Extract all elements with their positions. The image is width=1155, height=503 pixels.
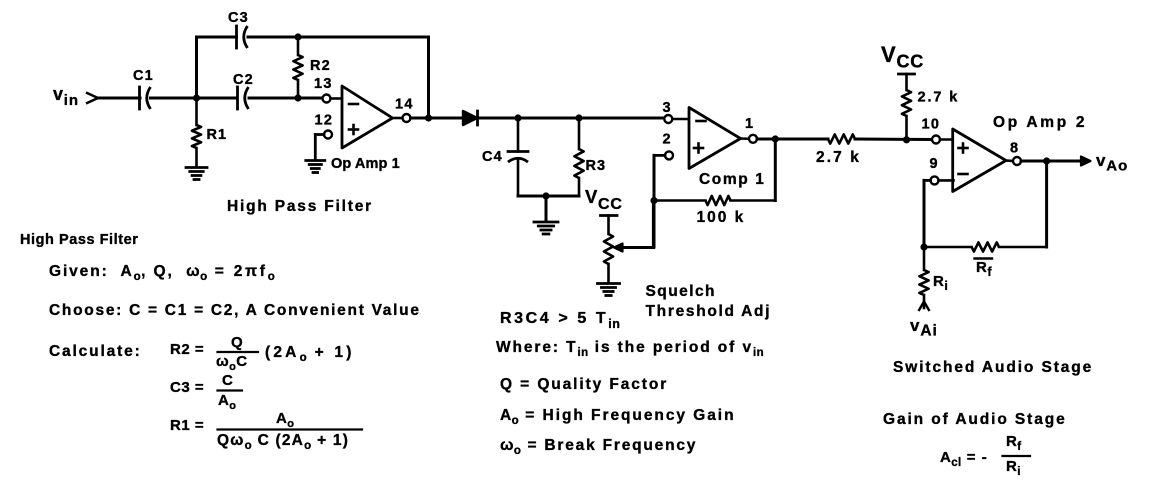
ground below R1 bbox=[186, 168, 207, 180]
label pin 8 bbox=[1010, 141, 1019, 157]
label Threshold Adj bbox=[646, 303, 772, 320]
Vcc terminal bar (right) bbox=[899, 73, 915, 76]
node B junction bbox=[294, 94, 301, 101]
svg-text:Q = Quality Factor: Q = Quality Factor bbox=[500, 376, 668, 393]
capacitor C3 bbox=[237, 26, 248, 48]
formula Acl bbox=[940, 433, 1030, 478]
label pin 14 bbox=[395, 97, 414, 113]
formula C3 equals bbox=[170, 372, 242, 412]
svg-text:8: 8 bbox=[1010, 141, 1019, 157]
wire pin9 to op-amp bbox=[939, 179, 954, 182]
svg-text:Calculate:: Calculate: bbox=[49, 343, 142, 360]
node pin10 junction bbox=[903, 136, 910, 143]
ground below pin 12 bbox=[306, 161, 325, 173]
diode CR1 bbox=[463, 111, 478, 125]
wire diode to comparator bbox=[478, 117, 665, 120]
label Squelch bbox=[646, 283, 716, 300]
svg-text:Threshold Adj: Threshold Adj bbox=[646, 303, 772, 320]
wire pin9 left bbox=[924, 179, 931, 182]
label pin 12 bbox=[315, 113, 334, 129]
svg-text:R1: R1 bbox=[207, 127, 228, 143]
wire pin9 down bbox=[923, 180, 926, 247]
wire feedback corner down to op-amp output bbox=[427, 37, 430, 118]
label vAi bbox=[910, 316, 938, 340]
pin 12 bbox=[324, 131, 332, 139]
Vcc terminal bar (squelch) bbox=[601, 214, 618, 217]
resistor 2.7k pullup bbox=[902, 74, 911, 140]
wire pin8 right bbox=[1021, 160, 1081, 163]
wire pin2 down bbox=[653, 155, 656, 247]
ground below C4/R3 bbox=[534, 222, 558, 234]
resistor R1 bbox=[192, 98, 201, 167]
svg-text:Comp 1: Comp 1 bbox=[699, 171, 765, 188]
node Ri junction bbox=[920, 243, 927, 250]
capacitor C4 bbox=[508, 152, 528, 163]
label R3 bbox=[586, 158, 607, 174]
wire C2 to node B bbox=[249, 97, 323, 100]
capacitor C2 bbox=[238, 87, 249, 109]
label pin 1 bbox=[745, 116, 754, 132]
svg-text:10: 10 bbox=[922, 117, 941, 133]
svg-text:13: 13 bbox=[314, 76, 333, 92]
wire pin12 down to ground bbox=[314, 135, 317, 160]
op-amp U3 plus bbox=[959, 144, 968, 153]
wire pin2 left bbox=[654, 154, 665, 157]
pin 8 bbox=[1013, 157, 1021, 165]
svg-text:12: 12 bbox=[315, 113, 334, 129]
wire C4 top bbox=[517, 118, 520, 152]
svg-text:Op Amp 2: Op Amp 2 bbox=[993, 114, 1087, 131]
label pin 9 bbox=[930, 156, 939, 172]
wire C1 to node A bbox=[151, 97, 238, 100]
vAo arrow bbox=[1081, 157, 1091, 166]
label Vcc (right) bbox=[881, 42, 924, 72]
wire node C to feedback corner bbox=[298, 36, 429, 39]
pin 9 bbox=[931, 176, 939, 184]
pin 2 bbox=[665, 151, 673, 159]
node feedback junction bbox=[650, 197, 657, 204]
vAi arrow bbox=[919, 302, 930, 312]
svg-text:R3: R3 bbox=[586, 158, 607, 174]
svg-text:14: 14 bbox=[395, 97, 414, 113]
label Switched Audio Stage bbox=[893, 359, 1093, 376]
svg-text:2.7 k: 2.7 k bbox=[816, 149, 861, 166]
op-amp U1 triangle bbox=[342, 86, 393, 148]
pin 1 bbox=[749, 135, 757, 143]
ground below potentiometer bbox=[598, 284, 620, 296]
svg-text:High Pass Filter: High Pass Filter bbox=[227, 198, 373, 215]
label R1 bbox=[207, 127, 228, 143]
svg-text:3: 3 bbox=[663, 100, 672, 116]
text Choose line bbox=[49, 302, 421, 319]
wire op-amp output to pin8 bbox=[1006, 159, 1013, 162]
label Comp 1 bbox=[699, 171, 765, 188]
wire C4-R3 bottom bbox=[518, 195, 579, 198]
text Given line bbox=[49, 263, 275, 283]
svg-text:1: 1 bbox=[745, 116, 754, 132]
svg-text:R2: R2 bbox=[310, 58, 331, 74]
comparator U2 minus bbox=[697, 120, 706, 123]
svg-text:R1 =: R1 = bbox=[170, 417, 204, 434]
wire Rf up to output bbox=[1045, 161, 1048, 247]
text Ao definition bbox=[500, 407, 735, 427]
wire op-amp output bbox=[393, 117, 403, 120]
label Op Amp 1 bbox=[331, 156, 400, 172]
label C2 bbox=[233, 72, 254, 88]
text R3C4 condition bbox=[500, 310, 620, 331]
wire vin to C1 bbox=[97, 97, 140, 100]
svg-text:Choose: C = C1 = C2, A Conveni: Choose: C = C1 = C2, A Convenient Value bbox=[49, 302, 421, 319]
svg-text:Gain of Audio Stage: Gain of Audio Stage bbox=[883, 411, 1067, 428]
text Q definition bbox=[500, 376, 668, 393]
label C4 bbox=[482, 149, 503, 165]
wire node A up to C3 rail bbox=[195, 37, 198, 98]
label Op Amp 2 bbox=[993, 114, 1087, 131]
comparator U2 plus bbox=[694, 144, 703, 153]
label R2 bbox=[310, 58, 331, 74]
wire 100k vertical bbox=[774, 139, 777, 201]
label C1 bbox=[133, 68, 154, 84]
wire C4 bottom bbox=[517, 160, 520, 197]
wire pin10 to op-amp bbox=[940, 138, 954, 141]
svg-text:Switched Audio Stage: Switched Audio Stage bbox=[893, 359, 1093, 376]
op-amp U3 minus bbox=[959, 173, 968, 176]
pin 10 bbox=[932, 136, 940, 144]
text Gain of Audio Stage bbox=[883, 411, 1067, 428]
wire C3 to node C bbox=[248, 36, 298, 39]
label pin 10 bbox=[922, 117, 941, 133]
node output junction bbox=[425, 114, 432, 121]
label Vcc (squelch) bbox=[585, 186, 623, 213]
svg-text:Q: Q bbox=[231, 334, 243, 351]
node output junction (audio) bbox=[1043, 157, 1050, 164]
resistor 2.7k series bbox=[828, 134, 932, 143]
wire pin3 to comparator bbox=[672, 118, 690, 121]
svg-text:C3 =: C3 = bbox=[170, 379, 204, 396]
svg-text:R2 =: R2 = bbox=[170, 341, 204, 358]
label Rf bbox=[975, 259, 993, 280]
svg-text:High Pass Filter: High Pass Filter bbox=[20, 232, 138, 248]
potentiometer wiper arrow bbox=[614, 244, 653, 252]
wire comparator output bbox=[741, 137, 750, 140]
node C4 top junction bbox=[514, 114, 521, 121]
op-amp U1 plus bbox=[349, 125, 358, 134]
svg-text:C1: C1 bbox=[133, 68, 154, 84]
potentiometer body bbox=[604, 216, 613, 283]
resistor R3 bbox=[574, 118, 583, 196]
svg-text:9: 9 bbox=[930, 156, 939, 172]
node R3 top junction bbox=[575, 114, 582, 121]
label pin 3 bbox=[663, 100, 672, 116]
vin input arrow bbox=[86, 93, 98, 104]
text High Pass Filter heading bbox=[20, 232, 138, 248]
pin 14 bbox=[403, 114, 411, 122]
op-amp U3 triangle bbox=[953, 129, 1006, 192]
svg-text:2: 2 bbox=[663, 132, 672, 148]
label High Pass Filter (schematic) bbox=[227, 198, 373, 215]
wire down to ground bbox=[545, 196, 548, 221]
wire pin12 left bbox=[315, 133, 324, 136]
label 2.7 k series bbox=[816, 149, 861, 166]
resistor R2 bbox=[293, 37, 302, 98]
label Ri bbox=[933, 273, 948, 293]
svg-text:C: C bbox=[222, 372, 233, 389]
node A junction bbox=[193, 94, 200, 101]
node 100k junction bbox=[772, 135, 779, 142]
svg-text:2.7 k: 2.7 k bbox=[918, 90, 960, 106]
wire pin13 to op-amp bbox=[331, 97, 344, 100]
capacitor C1 bbox=[140, 87, 151, 109]
svg-text:C4: C4 bbox=[482, 149, 503, 165]
label 100 k bbox=[697, 209, 746, 226]
label pin 2 bbox=[663, 132, 672, 148]
pin 3 bbox=[664, 115, 672, 123]
svg-text:C3: C3 bbox=[228, 10, 249, 26]
wire pin1 right bbox=[757, 138, 828, 141]
resistor 100k bbox=[654, 196, 775, 205]
vin input label bbox=[53, 84, 79, 109]
node C junction bbox=[294, 33, 301, 40]
wire rail to C3 bbox=[197, 36, 237, 39]
wire pin14 to diode bbox=[411, 117, 465, 120]
op-amp U1 minus bbox=[349, 103, 358, 106]
text wo definition bbox=[500, 437, 697, 457]
label 2.7 k pullup bbox=[918, 90, 960, 106]
resistor Rf bbox=[924, 242, 1047, 251]
text Where line bbox=[496, 339, 764, 359]
svg-text:100 k: 100 k bbox=[697, 209, 746, 226]
label vAo bbox=[1096, 151, 1128, 175]
formula R1 equals bbox=[170, 410, 362, 452]
svg-text:C2: C2 bbox=[233, 72, 254, 88]
wire wiper up to node bbox=[652, 201, 655, 248]
comparator U2 triangle bbox=[689, 108, 741, 169]
formula R2 equals bbox=[170, 334, 355, 373]
resistor Ri bbox=[919, 247, 928, 308]
svg-text:Squelch: Squelch bbox=[646, 283, 716, 300]
text Calculate label bbox=[49, 343, 142, 360]
label C3 bbox=[228, 10, 249, 26]
svg-text:Op Amp 1: Op Amp 1 bbox=[331, 156, 400, 172]
node squelch ground junction bbox=[542, 192, 549, 199]
pin 13 bbox=[323, 95, 331, 103]
label pin 13 bbox=[314, 76, 333, 92]
